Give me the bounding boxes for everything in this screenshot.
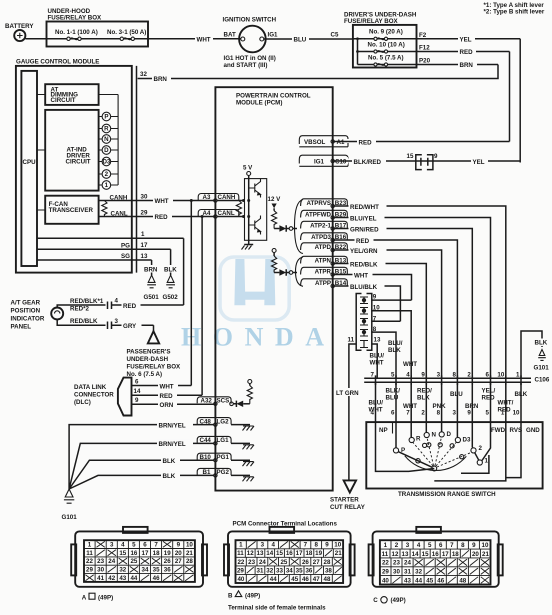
svg-text:23: 23	[248, 559, 255, 566]
svg-text:BLU/: BLU/	[369, 400, 384, 407]
svg-text:45: 45	[291, 576, 298, 583]
svg-text:RED: RED	[356, 238, 370, 245]
svg-text:30: 30	[141, 193, 148, 200]
svg-text:CIRCUIT: CIRCUIT	[66, 159, 91, 166]
svg-text:ATPR: ATPR	[315, 268, 332, 275]
svg-text:21: 21	[482, 551, 489, 558]
svg-text:1: 1	[516, 372, 520, 379]
svg-text:RED: RED	[498, 407, 512, 414]
svg-text:20: 20	[472, 551, 479, 558]
svg-text:A3: A3	[203, 194, 211, 201]
svg-text:*2: Type B shift lever: *2: Type B shift lever	[484, 9, 545, 16]
svg-text:INDICATOR: INDICATOR	[11, 316, 45, 323]
svg-text:48: 48	[324, 576, 331, 583]
svg-text:14: 14	[412, 551, 419, 558]
svg-text:4: 4	[417, 542, 421, 549]
svg-text:LG1: LG1	[217, 437, 230, 444]
svg-text:8: 8	[437, 410, 441, 417]
svg-text:No. 9 (20 A): No. 9 (20 A)	[369, 29, 403, 36]
svg-text:19: 19	[315, 550, 322, 557]
svg-text:YEL/: YEL/	[482, 388, 496, 395]
svg-text:35: 35	[296, 567, 303, 574]
svg-text:32: 32	[119, 567, 126, 574]
svg-text:6: 6	[135, 378, 139, 385]
svg-text:No. 10 (10 A): No. 10 (10 A)	[368, 41, 405, 48]
svg-text:CPU: CPU	[23, 159, 37, 166]
svg-text:32: 32	[140, 71, 147, 78]
svg-text:BATTERY: BATTERY	[5, 23, 34, 30]
svg-text:25: 25	[280, 559, 287, 566]
svg-text:10: 10	[186, 541, 193, 548]
svg-text:D3: D3	[102, 159, 110, 166]
svg-text:17: 17	[141, 242, 148, 249]
svg-text:and START (III): and START (III)	[224, 62, 268, 69]
svg-text:44: 44	[415, 577, 422, 584]
svg-text:20: 20	[175, 550, 182, 557]
svg-text:47: 47	[313, 576, 320, 583]
svg-text:IGNITION SWITCH: IGNITION SWITCH	[223, 17, 277, 24]
svg-text:BLU: BLU	[294, 37, 307, 44]
svg-text:D: D	[104, 147, 109, 154]
svg-text:POSITION: POSITION	[11, 308, 41, 315]
svg-text:12 V: 12 V	[268, 196, 282, 203]
svg-text:25: 25	[130, 558, 137, 565]
svg-text:RED/WHT: RED/WHT	[350, 204, 379, 211]
svg-text:1: 1	[384, 542, 388, 549]
svg-text:(DLC): (DLC)	[74, 399, 91, 406]
svg-text:14: 14	[134, 388, 141, 395]
svg-text:G501: G501	[144, 294, 160, 301]
svg-text:NP: NP	[379, 427, 388, 434]
svg-text:SCS: SCS	[217, 398, 230, 405]
svg-text:CANH: CANH	[110, 194, 128, 201]
svg-text:IG1: IG1	[268, 32, 279, 39]
svg-text:2: 2	[479, 445, 483, 452]
svg-text:WHT: WHT	[403, 361, 417, 368]
svg-text:29: 29	[382, 569, 389, 576]
svg-text:3: 3	[110, 541, 114, 548]
svg-text:GND: GND	[526, 427, 540, 434]
svg-text:A4: A4	[203, 210, 211, 217]
svg-text:7: 7	[154, 541, 158, 548]
svg-text:STARTER: STARTER	[330, 497, 359, 504]
svg-text:10: 10	[334, 542, 341, 549]
svg-text:ATPP: ATPP	[315, 280, 331, 287]
svg-text:9: 9	[434, 153, 438, 160]
svg-text:(49P): (49P)	[245, 592, 260, 599]
svg-text:FUSE/RELAY BOX: FUSE/RELAY BOX	[127, 364, 182, 371]
svg-text:12: 12	[392, 551, 399, 558]
svg-text:TRANSCEIVER: TRANSCEIVER	[49, 207, 94, 214]
svg-text:BLK: BLK	[535, 340, 548, 347]
svg-text:4: 4	[115, 298, 119, 305]
svg-text:Terminal side of female termin: Terminal side of female terminals	[228, 605, 326, 612]
svg-text:22: 22	[237, 559, 244, 566]
svg-text:19: 19	[164, 550, 171, 557]
svg-text:26: 26	[164, 558, 171, 565]
svg-text:17: 17	[442, 551, 449, 558]
svg-text:32: 32	[266, 567, 273, 574]
svg-text:9: 9	[421, 372, 425, 379]
svg-text:11: 11	[86, 550, 93, 557]
svg-text:18: 18	[305, 550, 312, 557]
svg-text:7: 7	[304, 542, 308, 549]
svg-text:46: 46	[302, 576, 309, 583]
svg-text:4: 4	[406, 372, 410, 379]
svg-text:POWERTRAIN CONTROL: POWERTRAIN CONTROL	[236, 93, 311, 100]
svg-text:3: 3	[437, 372, 441, 379]
svg-text:41: 41	[97, 575, 104, 582]
svg-text:5: 5	[391, 372, 395, 379]
svg-text:PG2: PG2	[217, 469, 230, 476]
svg-text:RED*2: RED*2	[70, 306, 89, 313]
svg-text:GRN/RED: GRN/RED	[350, 226, 379, 233]
svg-text:1: 1	[239, 542, 243, 549]
svg-text:WHT/: WHT/	[498, 400, 514, 407]
svg-text:RED: RED	[482, 395, 496, 402]
svg-text:WHT: WHT	[160, 383, 174, 390]
svg-text:31: 31	[257, 567, 264, 574]
svg-text:G101: G101	[534, 365, 550, 372]
svg-text:CONNECTOR: CONNECTOR	[74, 392, 114, 399]
svg-text:G101: G101	[62, 514, 78, 521]
svg-text:YEL/GRN: YEL/GRN	[350, 248, 378, 255]
svg-text:WHT: WHT	[403, 403, 417, 410]
svg-text:31: 31	[404, 569, 411, 576]
svg-text:34: 34	[286, 567, 293, 574]
svg-text:15: 15	[407, 153, 414, 160]
svg-text:9: 9	[467, 410, 471, 417]
svg-text:MODULE (PCM): MODULE (PCM)	[236, 100, 282, 107]
svg-text:BLK: BLK	[163, 473, 176, 480]
svg-text:C5: C5	[331, 32, 339, 39]
svg-text:10: 10	[513, 410, 520, 417]
svg-text:5: 5	[486, 410, 490, 417]
svg-text:44: 44	[130, 575, 137, 582]
svg-text:15: 15	[119, 550, 126, 557]
svg-text:No. 3-1 (50 A): No. 3-1 (50 A)	[107, 29, 146, 36]
svg-text:45: 45	[426, 577, 433, 584]
svg-text:3: 3	[115, 318, 119, 325]
svg-text:1: 1	[88, 541, 92, 548]
svg-text:6: 6	[486, 372, 490, 379]
svg-text:TRANSMISSION RANGE SWITCH: TRANSMISSION RANGE SWITCH	[398, 491, 496, 498]
svg-text:YEL: YEL	[460, 37, 472, 44]
svg-text:BLK/RED: BLK/RED	[354, 159, 382, 166]
svg-text:FUSE/RELAY BOX: FUSE/RELAY BOX	[48, 15, 103, 22]
svg-text:CANL: CANL	[111, 210, 128, 217]
svg-text:4: 4	[121, 541, 125, 548]
svg-text:RED: RED	[155, 214, 169, 221]
svg-text:YEL: YEL	[473, 159, 485, 166]
svg-text:6: 6	[391, 410, 395, 417]
svg-text:13: 13	[402, 551, 409, 558]
svg-text:36: 36	[164, 567, 171, 574]
svg-text:BLU/BLK: BLU/BLK	[350, 284, 378, 291]
svg-text:R: R	[104, 126, 109, 133]
svg-text:9: 9	[472, 542, 476, 549]
svg-text:24: 24	[259, 559, 266, 566]
svg-text:RVS: RVS	[510, 427, 523, 434]
svg-text:HONDA: HONDA	[181, 323, 327, 352]
svg-text:FWD: FWD	[491, 427, 506, 434]
svg-text:35: 35	[153, 567, 160, 574]
svg-text:36: 36	[305, 567, 312, 574]
svg-text:6: 6	[143, 541, 147, 548]
svg-text:RED/: RED/	[417, 388, 432, 395]
svg-text:7: 7	[406, 410, 410, 417]
svg-text:BRN/YEL: BRN/YEL	[159, 422, 186, 429]
svg-text:22: 22	[86, 558, 93, 565]
svg-text:21: 21	[335, 550, 342, 557]
svg-text:BRN: BRN	[465, 403, 479, 410]
svg-text:A: A	[82, 594, 87, 601]
svg-text:43: 43	[404, 577, 411, 584]
svg-text:2: 2	[395, 542, 399, 549]
svg-text:10: 10	[497, 372, 504, 379]
svg-text:2: 2	[105, 171, 109, 178]
svg-text:D3: D3	[463, 437, 471, 444]
svg-text:CIRCUIT: CIRCUIT	[51, 97, 76, 104]
svg-text:P20: P20	[419, 58, 431, 65]
svg-text:BLK: BLK	[388, 347, 401, 354]
svg-text:No. 1-1 (100 A): No. 1-1 (100 A)	[55, 29, 98, 36]
svg-text:13: 13	[257, 550, 264, 557]
svg-text:16: 16	[130, 550, 137, 557]
svg-text:7: 7	[371, 372, 375, 379]
svg-text:3: 3	[452, 410, 456, 417]
svg-text:ATPN: ATPN	[315, 257, 332, 264]
svg-text:13: 13	[141, 253, 148, 260]
svg-text:BLK: BLK	[515, 391, 528, 398]
svg-text:PG: PG	[121, 242, 130, 249]
svg-text:WHT: WHT	[155, 198, 169, 205]
svg-text:9: 9	[177, 541, 181, 548]
svg-text:F2: F2	[419, 32, 427, 39]
svg-text:BRN: BRN	[144, 267, 158, 274]
svg-text:A32: A32	[201, 398, 213, 405]
svg-text:BLU/: BLU/	[370, 353, 385, 360]
svg-text:15: 15	[422, 551, 429, 558]
svg-text:BLU: BLU	[386, 395, 399, 402]
svg-text:(49P): (49P)	[98, 594, 113, 601]
svg-text:8: 8	[314, 542, 318, 549]
svg-text:11: 11	[237, 550, 244, 557]
svg-text:17: 17	[142, 550, 149, 557]
svg-text:8: 8	[452, 372, 456, 379]
svg-text:DATA LINK: DATA LINK	[74, 384, 107, 391]
svg-text:RED: RED	[160, 393, 174, 400]
svg-text:1: 1	[141, 231, 145, 238]
svg-text:12: 12	[247, 550, 254, 557]
svg-text:IG1: IG1	[314, 158, 325, 165]
svg-text:30: 30	[393, 569, 400, 576]
svg-text:23: 23	[393, 560, 400, 567]
svg-text:6: 6	[439, 542, 443, 549]
svg-text:46: 46	[153, 575, 160, 582]
svg-text:C10: C10	[335, 158, 347, 165]
svg-text:ATPFWD: ATPFWD	[305, 211, 332, 218]
svg-text:13: 13	[374, 337, 381, 344]
svg-text:14: 14	[266, 550, 273, 557]
svg-text:40: 40	[237, 576, 244, 583]
svg-text:G502: G502	[163, 294, 179, 301]
svg-text:1: 1	[485, 458, 489, 465]
svg-text:PG1: PG1	[217, 454, 230, 461]
svg-text:27: 27	[175, 558, 182, 565]
svg-text:BAT: BAT	[224, 32, 236, 39]
svg-text:LG2: LG2	[217, 418, 230, 425]
svg-text:26: 26	[302, 559, 309, 566]
svg-text:SG: SG	[121, 253, 130, 260]
svg-text:22: 22	[382, 560, 389, 567]
svg-text:A1: A1	[337, 139, 345, 146]
svg-text:F12: F12	[419, 45, 430, 52]
svg-text:WHT: WHT	[369, 407, 383, 414]
svg-text:ATPD3: ATPD3	[311, 234, 331, 241]
svg-text:WHT: WHT	[197, 36, 211, 43]
svg-text:BLU/YEL: BLU/YEL	[350, 215, 377, 222]
svg-text:8: 8	[461, 542, 465, 549]
svg-text:18: 18	[452, 551, 459, 558]
svg-text:BLU/: BLU/	[388, 340, 403, 347]
svg-text:29: 29	[141, 209, 148, 216]
svg-text:46: 46	[437, 577, 444, 584]
svg-text:N: N	[432, 432, 437, 439]
svg-text:ATP2-1: ATP2-1	[310, 222, 331, 229]
svg-text:24: 24	[404, 560, 411, 567]
svg-text:16: 16	[432, 551, 439, 558]
svg-text:LT GRN: LT GRN	[336, 390, 359, 397]
svg-text:17: 17	[296, 550, 303, 557]
svg-text:VBSOL: VBSOL	[304, 139, 326, 146]
svg-text:11: 11	[348, 337, 355, 344]
svg-text:28: 28	[324, 559, 331, 566]
svg-text:5: 5	[428, 542, 432, 549]
svg-text:RED/BLK: RED/BLK	[350, 261, 378, 268]
svg-text:23: 23	[97, 558, 104, 565]
svg-text:28: 28	[186, 558, 193, 565]
svg-text:BLU: BLU	[450, 391, 463, 398]
svg-text:RED: RED	[359, 139, 373, 146]
svg-text:7: 7	[450, 542, 454, 549]
svg-text:WHT: WHT	[354, 272, 368, 279]
svg-text:PNK: PNK	[433, 403, 447, 410]
svg-text:43: 43	[119, 575, 126, 582]
svg-text:2: 2	[421, 410, 425, 417]
svg-text:RED: RED	[460, 49, 474, 56]
svg-text:PANEL: PANEL	[11, 324, 32, 331]
svg-text:WHT: WHT	[370, 360, 384, 367]
svg-text:B: B	[228, 592, 233, 599]
svg-text:34: 34	[142, 567, 149, 574]
svg-text:40: 40	[382, 577, 389, 584]
svg-text:11: 11	[382, 551, 389, 558]
svg-text:P: P	[104, 114, 108, 121]
svg-text:N: N	[104, 136, 109, 143]
svg-text:29: 29	[86, 567, 93, 574]
svg-text:9: 9	[135, 397, 139, 404]
svg-text:24: 24	[108, 558, 115, 565]
svg-text:ATPRVS: ATPRVS	[306, 200, 331, 207]
svg-text:2: 2	[467, 372, 471, 379]
svg-text:RED/BLK*1: RED/BLK*1	[70, 298, 104, 305]
svg-text:D: D	[447, 431, 452, 438]
svg-text:15: 15	[276, 550, 283, 557]
svg-text:RED: RED	[123, 303, 137, 310]
svg-text:RED/BLK: RED/BLK	[70, 318, 98, 325]
svg-text:3: 3	[261, 542, 265, 549]
svg-text:A/T GEAR: A/T GEAR	[11, 300, 41, 307]
svg-text:BLK: BLK	[417, 395, 430, 402]
svg-text:BLK: BLK	[164, 267, 177, 274]
svg-text:42: 42	[108, 575, 115, 582]
svg-text:GRY: GRY	[123, 323, 137, 330]
svg-text:UNDER-DASH: UNDER-DASH	[127, 356, 169, 363]
svg-text:R: R	[416, 436, 421, 443]
svg-text:GAUGE CONTROL MODULE: GAUGE CONTROL MODULE	[16, 59, 99, 66]
svg-text:3: 3	[406, 542, 410, 549]
svg-text:29: 29	[237, 567, 244, 574]
svg-text:5: 5	[132, 541, 136, 548]
svg-text:BRN: BRN	[154, 76, 168, 83]
svg-text:10: 10	[482, 542, 489, 549]
svg-text:PASSENGER'S: PASSENGER'S	[127, 349, 171, 356]
svg-text:4: 4	[271, 542, 275, 549]
svg-text:21: 21	[186, 550, 193, 557]
svg-text:C106: C106	[535, 377, 550, 384]
svg-text:ATPD: ATPD	[315, 244, 332, 251]
svg-text:33: 33	[276, 567, 283, 574]
svg-text:9: 9	[325, 542, 329, 549]
svg-text:5 V: 5 V	[243, 165, 253, 172]
svg-text:IG1 HOT in ON (II): IG1 HOT in ON (II)	[224, 55, 276, 62]
svg-text:ORN: ORN	[160, 402, 174, 409]
svg-text:44: 44	[270, 576, 277, 583]
svg-text:18: 18	[153, 550, 160, 557]
svg-text:32: 32	[415, 569, 422, 576]
svg-text:BRN: BRN	[460, 62, 474, 69]
svg-text:No. 5 (7.5 A): No. 5 (7.5 A)	[368, 54, 404, 61]
svg-text:BLK/: BLK/	[386, 388, 401, 395]
svg-text:38: 38	[325, 567, 332, 574]
svg-text:BLK: BLK	[163, 458, 176, 465]
svg-text:BRN/YEL: BRN/YEL	[159, 441, 186, 448]
svg-text:CUT RELAY: CUT RELAY	[330, 504, 366, 511]
svg-text:16: 16	[286, 550, 293, 557]
svg-text:48: 48	[459, 577, 466, 584]
svg-text:1: 1	[105, 182, 109, 189]
svg-text:27: 27	[313, 559, 320, 566]
svg-text:C: C	[373, 597, 378, 604]
svg-text:(49P): (49P)	[391, 597, 406, 604]
svg-text:30: 30	[97, 567, 104, 574]
